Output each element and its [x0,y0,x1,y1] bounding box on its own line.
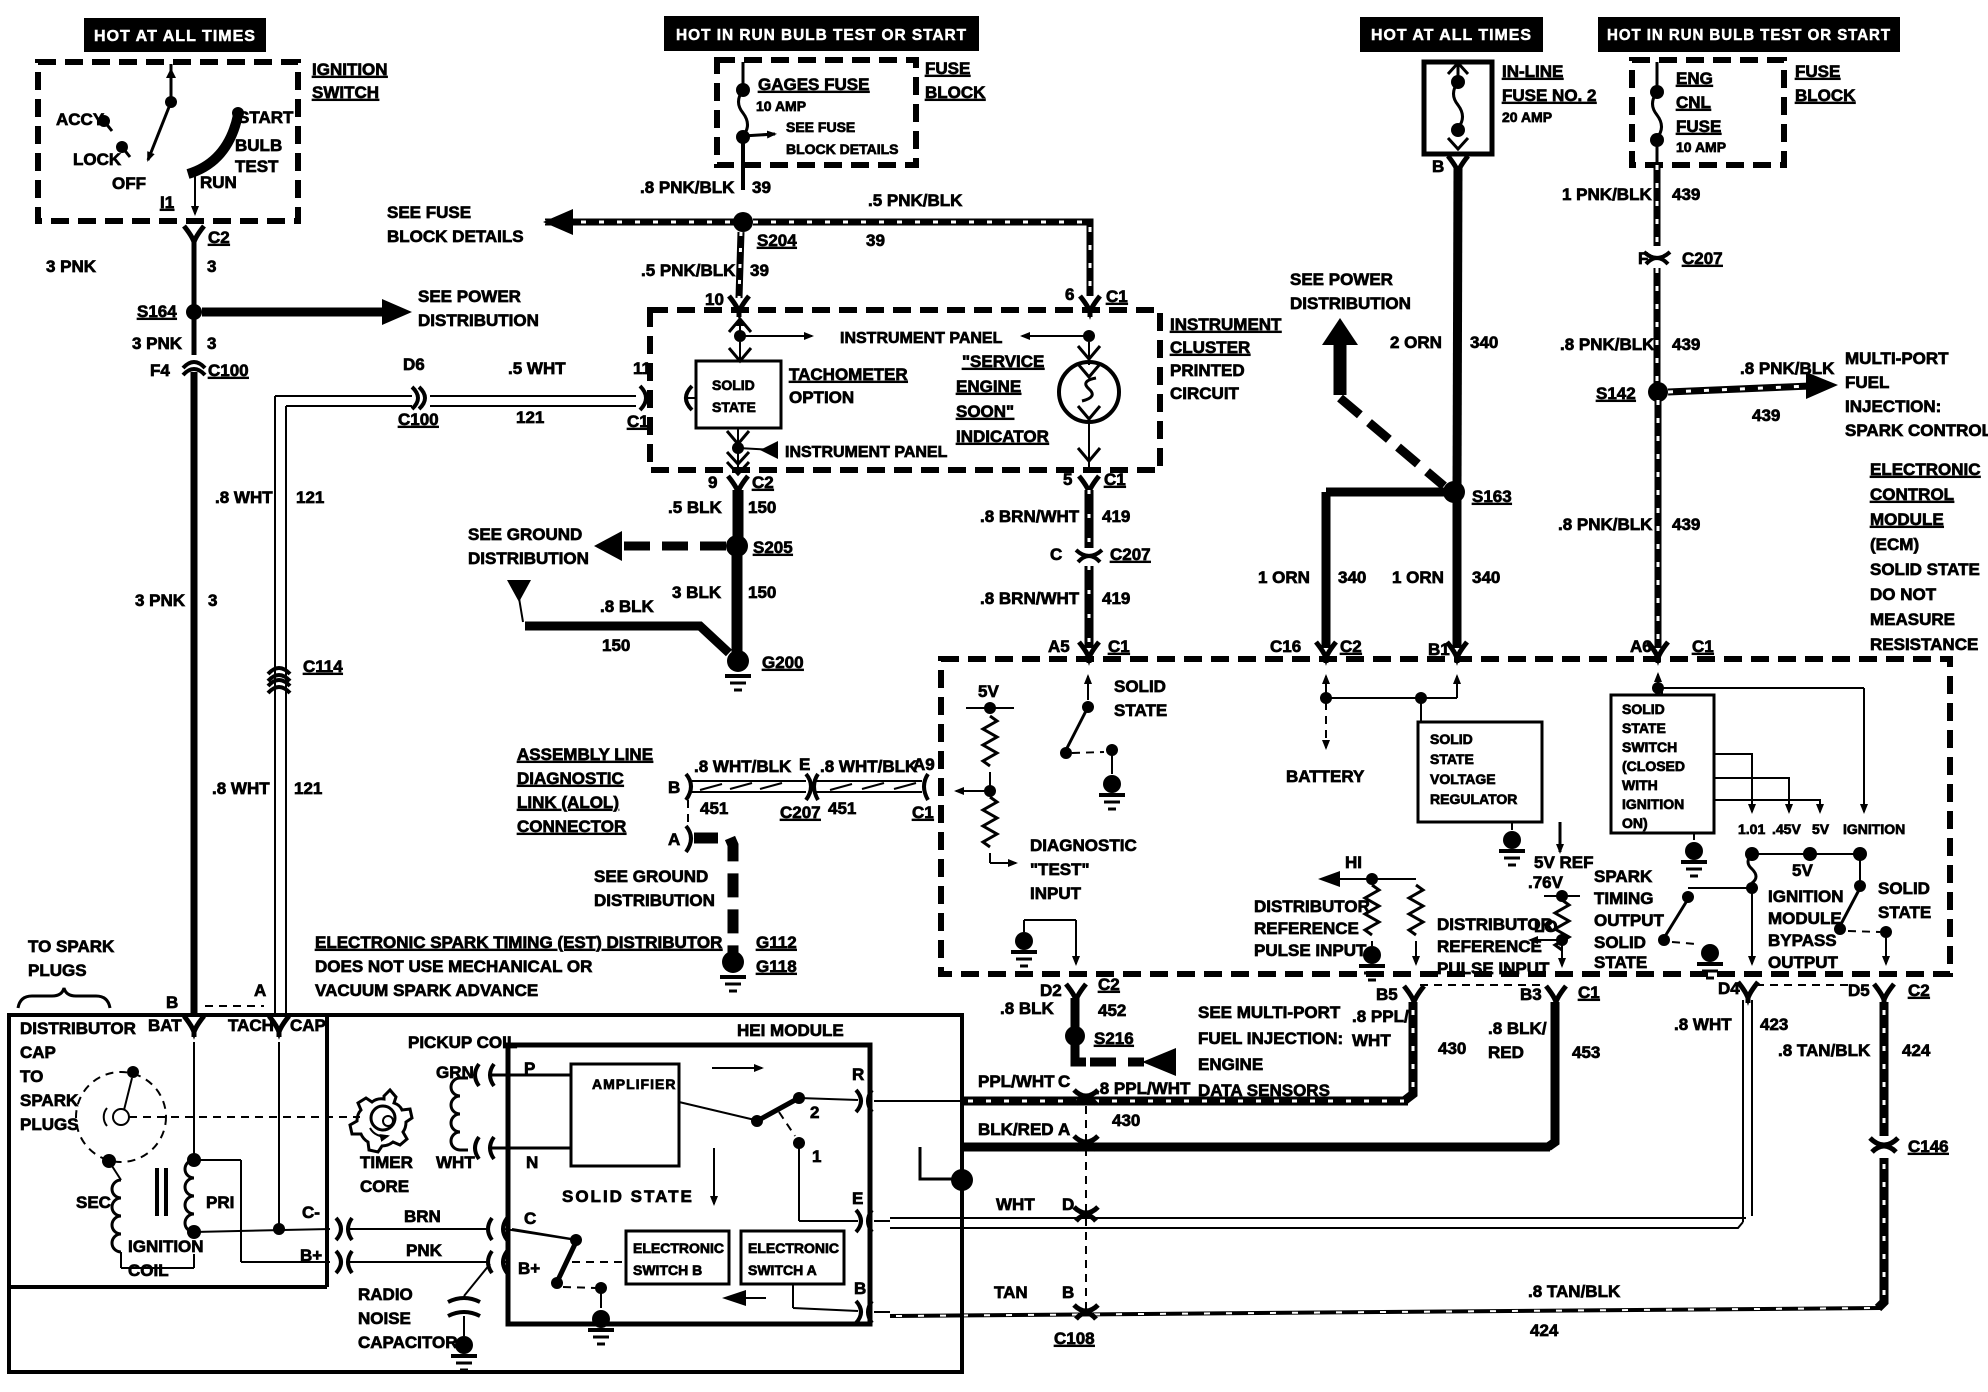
svg-text:C1: C1 [1104,470,1126,489]
svg-text:C100: C100 [398,410,439,429]
svg-text:1: 1 [812,1147,821,1166]
svg-text:BLK/RED: BLK/RED [978,1120,1054,1139]
svg-text:C1: C1 [912,803,934,822]
svg-text:C207: C207 [1110,545,1151,564]
svg-text:C108: C108 [1054,1329,1095,1348]
svg-text:INJECTION:: INJECTION: [1845,397,1941,416]
svg-text:SOLID: SOLID [1114,677,1166,696]
svg-text:RADIO: RADIO [358,1285,413,1304]
svg-text:340: 340 [1470,333,1498,352]
svg-text:IGNITION: IGNITION [128,1237,204,1256]
svg-text:STATE: STATE [1622,720,1666,736]
svg-text:WHT: WHT [436,1153,475,1172]
svg-text:3 PNK: 3 PNK [135,591,186,610]
svg-text:SEE POWER: SEE POWER [418,287,521,306]
svg-text:B: B [1432,157,1444,176]
svg-text:SEE FUSE: SEE FUSE [786,119,855,135]
svg-text:DISTRIBUTOR: DISTRIBUTOR [20,1019,136,1038]
svg-text:IGNITION: IGNITION [1768,887,1844,906]
svg-text:C2: C2 [208,228,230,247]
svg-text:424: 424 [1902,1041,1931,1060]
svg-text:DO NOT: DO NOT [1870,585,1937,604]
svg-text:BLOCK: BLOCK [1795,86,1856,105]
svg-text:D2: D2 [1040,981,1062,1000]
svg-text:A: A [254,981,266,1000]
svg-text:C2: C2 [752,473,774,492]
svg-text:INSTRUMENT PANEL: INSTRUMENT PANEL [840,330,1003,347]
svg-text:"SERVICE: "SERVICE [962,352,1044,371]
svg-text:COIL: COIL [128,1261,169,1280]
svg-text:FUEL: FUEL [1845,373,1889,392]
svg-text:ELECTRONIC: ELECTRONIC [748,1240,839,1256]
svg-text:B3: B3 [1520,985,1542,1004]
svg-text:5V: 5V [1792,861,1813,880]
svg-text:HOT AT ALL TIMES: HOT AT ALL TIMES [1371,27,1532,44]
svg-text:S204: S204 [757,231,797,250]
svg-text:.8 WHT: .8 WHT [1674,1015,1732,1034]
svg-text:S142: S142 [1596,384,1636,403]
svg-text:.8 WHT: .8 WHT [212,779,270,798]
svg-text:SEC: SEC [76,1193,111,1212]
svg-text:423: 423 [1760,1015,1788,1034]
svg-text:SOLID STATE: SOLID STATE [562,1187,694,1206]
svg-text:DISTRIBUTION: DISTRIBUTION [418,311,539,330]
svg-text:451: 451 [828,799,856,818]
svg-text:TIMING: TIMING [1594,889,1654,908]
svg-text:.8 WHT/BLK: .8 WHT/BLK [694,757,792,776]
svg-text:HOT IN RUN BULB TEST OR START: HOT IN RUN BULB TEST OR START [676,27,967,44]
svg-text:A: A [1058,1120,1070,1139]
svg-text:150: 150 [602,636,630,655]
svg-text:SPARK CONTROL: SPARK CONTROL [1845,421,1988,440]
svg-text:452: 452 [1098,1001,1126,1020]
svg-text:OFF: OFF [112,174,146,193]
svg-text:SEE GROUND: SEE GROUND [594,867,708,886]
svg-text:SEE FUSE: SEE FUSE [387,203,471,222]
svg-text:C2: C2 [1098,975,1120,994]
svg-text:MODULE: MODULE [1768,909,1842,928]
svg-text:BYPASS: BYPASS [1768,931,1837,950]
svg-text:INPUT: INPUT [1030,884,1082,903]
svg-text:.5 PNK/BLK: .5 PNK/BLK [868,191,963,210]
svg-text:C1: C1 [1108,637,1130,656]
svg-text:2: 2 [810,1103,819,1122]
svg-text:B: B [1062,1283,1074,1302]
svg-text:RED: RED [1488,1043,1524,1062]
svg-text:1 ORN: 1 ORN [1392,568,1444,587]
svg-text:121: 121 [296,488,324,507]
svg-text:A9: A9 [913,755,935,774]
svg-text:SOLID: SOLID [1594,933,1646,952]
svg-text:.8 BLK: .8 BLK [1000,999,1055,1018]
svg-text:419: 419 [1102,507,1130,526]
svg-text:BLOCK DETAILS: BLOCK DETAILS [786,141,899,157]
svg-text:FUSE: FUSE [925,59,970,78]
svg-text:5V: 5V [978,682,999,701]
svg-text:419: 419 [1102,589,1130,608]
svg-text:INSTRUMENT PANEL: INSTRUMENT PANEL [785,444,948,461]
svg-text:SOLID STATE: SOLID STATE [1870,560,1980,579]
svg-text:.8 PNK/BLK: .8 PNK/BLK [1740,359,1835,378]
svg-text:1 ORN: 1 ORN [1258,568,1310,587]
svg-text:RESISTANCE: RESISTANCE [1870,635,1978,654]
svg-text:SOLID: SOLID [1430,731,1473,747]
svg-text:HOT IN RUN BULB TEST OR START: HOT IN RUN BULB TEST OR START [1607,27,1891,44]
svg-text:TO: TO [20,1067,43,1086]
svg-text:HI: HI [1345,853,1362,872]
svg-text:BAT: BAT [148,1016,182,1035]
svg-text:LINK (ALOL): LINK (ALOL) [517,793,619,812]
svg-text:PPL/WHT: PPL/WHT [978,1072,1055,1091]
svg-text:VACUUM SPARK ADVANCE: VACUUM SPARK ADVANCE [315,981,538,1000]
svg-text:STATE: STATE [1878,903,1931,922]
svg-text:39: 39 [866,231,885,250]
svg-text:DOES NOT USE MECHANICAL OR: DOES NOT USE MECHANICAL OR [315,957,592,976]
svg-text:C1: C1 [1692,637,1714,656]
svg-text:D5: D5 [1848,981,1870,1000]
svg-text:121: 121 [516,408,544,427]
svg-text:G112: G112 [756,933,797,952]
svg-text:PLUGS: PLUGS [28,961,87,980]
svg-text:3: 3 [208,591,217,610]
svg-text:MODULE: MODULE [1870,510,1944,529]
svg-text:STATE: STATE [1114,701,1167,720]
svg-text:SWITCH: SWITCH [312,83,379,102]
svg-text:3 PNK: 3 PNK [46,257,97,276]
svg-text:C207: C207 [780,803,821,822]
svg-text:.8 PNK/BLK: .8 PNK/BLK [1560,335,1655,354]
svg-text:ENGINE: ENGINE [1198,1055,1263,1074]
svg-text:OUTPUT: OUTPUT [1768,953,1839,972]
svg-text:150: 150 [748,498,776,517]
svg-text:9: 9 [708,473,717,492]
svg-text:.45V: .45V [1772,821,1801,837]
svg-text:IGNITION: IGNITION [1622,796,1684,812]
svg-text:G200: G200 [762,653,804,672]
svg-text:.8 BRN/WHT: .8 BRN/WHT [980,507,1080,526]
svg-text:.76V: .76V [1528,873,1564,892]
svg-text:S164: S164 [137,302,177,321]
svg-text:.8 WHT/BLK: .8 WHT/BLK [820,757,918,776]
svg-text:REGULATOR: REGULATOR [1430,791,1517,807]
svg-text:3 BLK: 3 BLK [672,583,722,602]
svg-text:STATE: STATE [1594,953,1647,972]
svg-text:D4: D4 [1718,979,1740,998]
svg-text:SOLID: SOLID [712,377,755,393]
svg-text:C114: C114 [303,657,343,676]
svg-text:PULSE INPUT: PULSE INPUT [1254,941,1367,960]
svg-text:ELECTRONIC: ELECTRONIC [1870,460,1981,479]
svg-text:S216: S216 [1094,1029,1134,1048]
svg-text:150: 150 [748,583,776,602]
svg-text:DISTRIBUTION: DISTRIBUTION [1290,294,1411,313]
svg-text:N: N [526,1153,538,1172]
svg-text:B: B [668,778,680,797]
svg-text:C: C [1058,1072,1070,1091]
svg-text:BLOCK DETAILS: BLOCK DETAILS [387,227,524,246]
svg-text:3 PNK: 3 PNK [132,334,183,353]
svg-text:(CLOSED: (CLOSED [1622,758,1685,774]
svg-text:OPTION: OPTION [789,388,854,407]
svg-text:5V: 5V [1812,821,1830,837]
svg-text:B5: B5 [1376,985,1398,1004]
svg-text:STATE: STATE [1430,751,1474,767]
svg-text:5: 5 [1063,470,1072,489]
svg-text:439: 439 [1672,515,1700,534]
svg-text:I1: I1 [160,193,174,212]
svg-text:SEE GROUND: SEE GROUND [468,525,582,544]
svg-text:HEI MODULE: HEI MODULE [737,1021,844,1040]
svg-text:SEE POWER: SEE POWER [1290,270,1393,289]
svg-text:TO SPARK: TO SPARK [28,937,115,956]
svg-text:5V REF: 5V REF [1534,853,1594,872]
svg-text:.8 BLK: .8 BLK [600,597,655,616]
svg-text:BRN: BRN [404,1207,441,1226]
svg-text:FUSE NO. 2: FUSE NO. 2 [1502,86,1596,105]
svg-text:C146: C146 [1908,1137,1949,1156]
svg-text:PNK: PNK [406,1241,443,1260]
svg-text:E: E [852,1189,863,1208]
svg-text:S205: S205 [753,538,793,557]
svg-text:439: 439 [1672,335,1700,354]
svg-text:DISTRIBUTION: DISTRIBUTION [594,891,715,910]
svg-text:ON): ON) [1622,815,1648,831]
svg-text:E: E [799,755,810,774]
svg-text:3: 3 [207,334,216,353]
svg-text:C-: C- [302,1203,320,1222]
svg-text:TAN: TAN [994,1283,1028,1302]
svg-text:CNL: CNL [1676,93,1711,112]
svg-text:.5 BLK: .5 BLK [668,498,723,517]
svg-text:"TEST": "TEST" [1030,860,1090,879]
svg-text:C2: C2 [1908,981,1930,1000]
svg-text:WITH: WITH [1622,777,1658,793]
svg-text:2 ORN: 2 ORN [1390,333,1442,352]
svg-text:BLOCK: BLOCK [925,83,986,102]
svg-text:MEASURE: MEASURE [1870,610,1955,629]
svg-text:CAP: CAP [290,1016,326,1035]
svg-text:A: A [668,830,680,849]
svg-text:D6: D6 [403,355,425,374]
svg-text:C2: C2 [1340,637,1362,656]
svg-text:D: D [1062,1195,1074,1214]
svg-text:DIAGNOSTIC: DIAGNOSTIC [1030,836,1137,855]
svg-text:.8 BRN/WHT: .8 BRN/WHT [980,589,1080,608]
svg-text:TEST: TEST [235,157,279,176]
svg-text:CIRCUIT: CIRCUIT [1170,384,1240,403]
svg-text:NOISE: NOISE [358,1309,411,1328]
svg-text:INDICATOR: INDICATOR [956,427,1049,446]
svg-text:451: 451 [700,799,728,818]
svg-text:.8 TAN/BLK: .8 TAN/BLK [1778,1041,1871,1060]
svg-text:424: 424 [1530,1321,1559,1340]
svg-text:C1: C1 [627,412,649,431]
svg-text:PULSE INPUT: PULSE INPUT [1437,959,1550,978]
svg-text:C: C [524,1209,536,1228]
svg-text:CORE: CORE [360,1177,409,1196]
svg-text:.8 PNK/BLK: .8 PNK/BLK [640,178,735,197]
svg-text:START: START [238,108,294,127]
svg-text:FUSE: FUSE [1795,62,1840,81]
svg-text:.8 PPL/: .8 PPL/ [1352,1007,1409,1026]
svg-text:340: 340 [1472,568,1500,587]
svg-text:STATE: STATE [712,399,756,415]
svg-text:ENG: ENG [1676,69,1713,88]
svg-text:1 PNK/BLK: 1 PNK/BLK [1562,185,1652,204]
svg-text:R: R [852,1065,864,1084]
svg-text:PRI: PRI [206,1193,234,1212]
svg-text:REFERENCE: REFERENCE [1437,937,1542,956]
svg-text:INSTRUMENT: INSTRUMENT [1170,315,1282,334]
svg-text:C1: C1 [1106,287,1128,306]
svg-text:10: 10 [705,290,724,309]
svg-text:REFERENCE: REFERENCE [1254,919,1359,938]
svg-text:430: 430 [1438,1039,1466,1058]
svg-text:F4: F4 [150,361,170,380]
svg-text:C16: C16 [1270,637,1301,656]
svg-text:SOLID: SOLID [1622,701,1665,717]
svg-text:SOLID: SOLID [1878,879,1930,898]
svg-text:39: 39 [750,261,769,280]
svg-text:439: 439 [1672,185,1700,204]
svg-text:20 AMP: 20 AMP [1502,109,1552,125]
svg-text:3: 3 [207,257,216,276]
svg-text:ASSEMBLY LINE: ASSEMBLY LINE [517,745,653,764]
svg-text:MULTI-PORT: MULTI-PORT [1845,349,1949,368]
svg-text:LOCK: LOCK [73,150,122,169]
svg-text:C207: C207 [1682,249,1723,268]
svg-text:B+: B+ [518,1259,540,1278]
svg-text:C1: C1 [1578,983,1600,1002]
svg-text:IGNITION: IGNITION [1843,821,1905,837]
svg-text:SWITCH B: SWITCH B [633,1262,702,1278]
svg-text:BULB: BULB [235,136,282,155]
svg-text:WHT: WHT [996,1195,1035,1214]
svg-text:.8 TAN/BLK: .8 TAN/BLK [1528,1282,1621,1301]
svg-text:340: 340 [1338,568,1366,587]
svg-text:BATTERY: BATTERY [1286,767,1365,786]
svg-text:B+: B+ [300,1246,322,1265]
svg-text:HOT AT ALL TIMES: HOT AT ALL TIMES [94,28,256,45]
svg-text:SOON": SOON" [956,402,1014,421]
svg-text:PLUGS: PLUGS [20,1115,79,1134]
svg-text:121: 121 [294,779,322,798]
svg-text:C100: C100 [208,361,249,380]
svg-text:RUN: RUN [200,173,237,192]
svg-text:G118: G118 [756,957,797,976]
svg-text:C: C [1050,545,1062,564]
svg-text:ACCY: ACCY [56,110,105,129]
svg-text:B: B [854,1279,866,1298]
svg-text:6: 6 [1065,285,1074,304]
svg-text:OUTPUT: OUTPUT [1594,911,1665,930]
svg-text:DISTRIBUTION: DISTRIBUTION [468,549,589,568]
svg-text:.8 PPL/WHT: .8 PPL/WHT [1095,1079,1191,1098]
svg-text:ELECTRONIC SPARK TIMING (EST): ELECTRONIC SPARK TIMING (EST) DISTRIBUTO… [315,933,722,952]
svg-text:(ECM): (ECM) [1870,535,1919,554]
svg-text:TACH: TACH [228,1016,274,1035]
svg-text:IN-LINE: IN-LINE [1502,62,1563,81]
svg-text:.5 WHT: .5 WHT [508,359,566,378]
svg-text:SPARK: SPARK [20,1091,79,1110]
svg-text:430: 430 [1112,1111,1140,1130]
svg-text:10 AMP: 10 AMP [756,98,806,114]
svg-text:ELECTRONIC: ELECTRONIC [633,1240,724,1256]
svg-text:FUEL INJECTION:: FUEL INJECTION: [1198,1029,1343,1048]
svg-text:GAGES FUSE: GAGES FUSE [758,75,869,94]
svg-text:S163: S163 [1472,487,1512,506]
svg-text:CAPACITOR: CAPACITOR [358,1333,458,1352]
svg-text:FUSE: FUSE [1676,117,1721,136]
svg-text:1.01: 1.01 [1738,821,1765,837]
svg-text:.8 PNK/BLK: .8 PNK/BLK [1558,515,1653,534]
svg-text:WHT: WHT [1352,1031,1391,1050]
svg-text:A5: A5 [1048,637,1070,656]
svg-text:DISTRIBUTOR: DISTRIBUTOR [1254,897,1370,916]
svg-text:453: 453 [1572,1043,1600,1062]
svg-text:VOLTAGE: VOLTAGE [1430,771,1496,787]
svg-text:39: 39 [752,178,771,197]
svg-text:PICKUP COIL: PICKUP COIL [408,1033,517,1052]
svg-text:SEE MULTI-PORT: SEE MULTI-PORT [1198,1003,1341,1022]
svg-text:DISTRIBUTOR: DISTRIBUTOR [1437,915,1553,934]
svg-text:.8 BLK/: .8 BLK/ [1488,1019,1547,1038]
svg-text:ENGINE: ENGINE [956,377,1021,396]
svg-text:SPARK: SPARK [1594,867,1653,886]
svg-text:439: 439 [1752,406,1780,425]
svg-text:TACHOMETER: TACHOMETER [789,365,908,384]
svg-text:PRINTED: PRINTED [1170,361,1245,380]
svg-text:CAP: CAP [20,1043,56,1062]
svg-text:DIAGNOSTIC: DIAGNOSTIC [517,769,624,788]
svg-text:B: B [166,993,178,1012]
svg-text:CONTROL: CONTROL [1870,485,1954,504]
svg-text:10 AMP: 10 AMP [1676,139,1726,155]
svg-text:IGNITION: IGNITION [312,60,388,79]
svg-text:SWITCH: SWITCH [1622,739,1677,755]
svg-text:.5 PNK/BLK: .5 PNK/BLK [641,261,736,280]
svg-text:SWITCH A: SWITCH A [748,1262,817,1278]
svg-text:CLUSTER: CLUSTER [1170,338,1250,357]
svg-text:.8 WHT: .8 WHT [215,488,273,507]
svg-text:AMPLIFIER: AMPLIFIER [592,1076,676,1092]
svg-text:TIMER: TIMER [360,1153,413,1172]
svg-text:CONNECTOR: CONNECTOR [517,817,626,836]
